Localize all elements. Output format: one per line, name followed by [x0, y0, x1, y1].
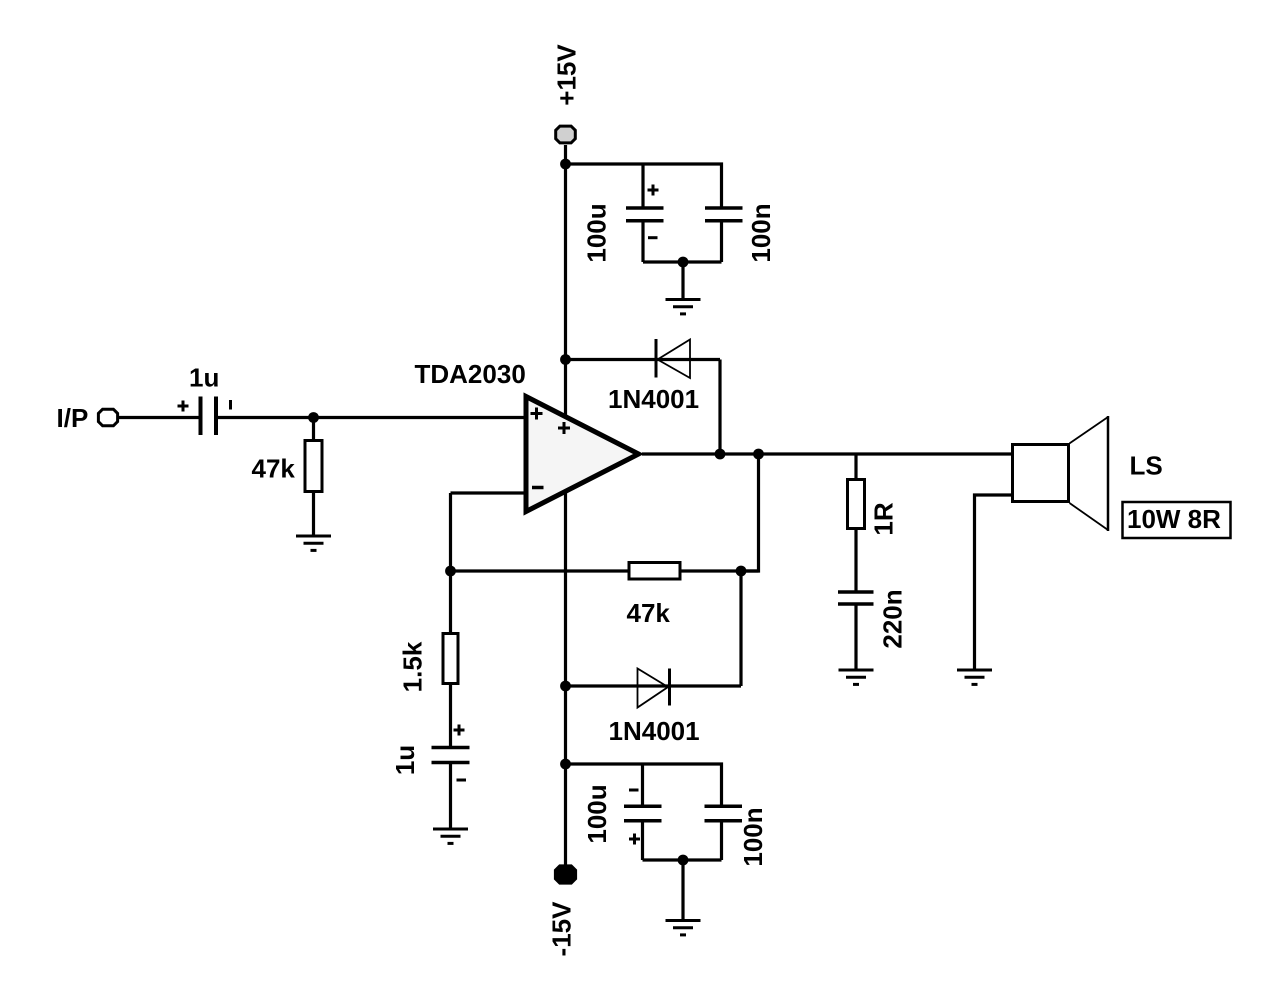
capacitor C5 100u bottom plate [624, 819, 662, 823]
ground below top decoupling [666, 300, 701, 314]
wire bottom 100u bottom stub [641, 820, 644, 860]
capacitor C1 1u plate left [199, 397, 203, 436]
junction dot feedback left (inverting node) [445, 566, 456, 577]
wire feedback node down to lower diode [739, 571, 742, 686]
svg-text:TDA2030: TDA2030 [415, 359, 526, 389]
svg-text:100n: 100n [738, 807, 768, 866]
wire 1R branch stub [854, 454, 857, 478]
rating box 10W 8R [1123, 502, 1231, 538]
svg-text:LS: LS [1130, 451, 1163, 481]
wire bottom 100u top stub [641, 764, 644, 806]
capacitor C1 1u plate right [214, 397, 218, 436]
capacitor C5 100u top plate [624, 805, 662, 809]
wire op-amp V- pin down to -15V terminal [564, 493, 567, 866]
svg-text:1.5k: 1.5k [398, 641, 428, 692]
C1 plus mark [178, 401, 189, 412]
junction dot bottom rail [560, 759, 571, 770]
capacitor C7 220n top plate [838, 590, 874, 594]
wire bottom 100n bottom stub [720, 820, 723, 860]
svg-text:100n: 100n [746, 203, 776, 262]
capacitor C2 1u top plate [432, 746, 470, 750]
diode D2 1N4001 cathode bar [668, 669, 671, 706]
speaker LS horn [1070, 417, 1109, 530]
diode D2 1N4001 triangle [638, 669, 669, 708]
resistor R1 47k body [305, 441, 322, 492]
wire output down to feedback rail [741, 454, 759, 571]
svg-text:47k: 47k [252, 454, 296, 484]
resistor R3 1.5k body [443, 634, 458, 684]
wire inverting input down to feedback node [449, 493, 452, 571]
wire top decoupling rail [566, 164, 722, 207]
wire node A down to R1 [312, 418, 315, 441]
svg-text:1N4001: 1N4001 [609, 716, 700, 746]
svg-text:100u: 100u [582, 203, 612, 262]
svg-text:220n: 220n [878, 589, 908, 648]
ground below speaker return [957, 670, 992, 684]
svg-text:1R: 1R [869, 502, 899, 535]
wire bottom decoupling bottom rail [643, 858, 722, 861]
speaker LS horn mouth [1107, 416, 1110, 531]
node A junction dot [308, 412, 319, 423]
op-amp V+ pin plus mark [558, 422, 570, 434]
svg-text:I/P: I/P [57, 403, 89, 433]
wire op-amp output to speaker [642, 452, 1011, 455]
C5 minus mark [629, 789, 639, 792]
wire feedback rail [451, 569, 759, 572]
wire 1.5k top lead [449, 571, 452, 633]
wire C1 to node A [217, 416, 524, 419]
wire speaker return [975, 495, 1012, 670]
speaker LS box [1013, 445, 1069, 502]
capacitor C4 100n top plate [705, 206, 743, 210]
diode D1 1N4001 triangle [658, 340, 691, 379]
wire C2 to ground [449, 763, 452, 829]
input terminal I/P octagon [98, 409, 117, 426]
diode D1 1N4001 cathode bar [655, 339, 658, 378]
ground below R1 [296, 536, 331, 550]
junction dot output/diode D1 [715, 449, 726, 460]
+15V terminal octagon [556, 126, 576, 143]
svg-text:100u: 100u [582, 784, 612, 843]
capacitor C2 1u bottom plate [432, 761, 470, 765]
wire +15V rail down to op-amp V+ pin [564, 164, 567, 416]
wire 100u bottom stub [641, 221, 644, 262]
ground below C2 [433, 829, 468, 843]
wire 1R to 220n [854, 530, 857, 591]
junction dot top decoupling ground [678, 257, 689, 268]
svg-text:+15V: +15V [552, 44, 582, 106]
-15V terminal filled octagon [555, 866, 575, 883]
resistor R4 1R body [848, 480, 865, 529]
C3 minus mark [648, 236, 658, 239]
capacitor C3 100u bottom plate [626, 219, 664, 223]
wire R1 to ground [312, 493, 315, 536]
op-amp minus input mark [532, 486, 544, 490]
wire bottom decoupling ground stem [681, 860, 684, 920]
C2 plus mark [454, 725, 465, 736]
wire 1.5k to C2 [449, 685, 452, 747]
svg-text:-15V: -15V [547, 901, 577, 957]
junction dot output/feedback [753, 449, 764, 460]
C2 minus mark [457, 779, 467, 782]
svg-text:1N4001: 1N4001 [608, 384, 699, 414]
junction dot feedback / diode D2 [736, 566, 747, 577]
C3 plus mark [648, 185, 659, 196]
wire lower diode branch [566, 684, 742, 687]
op-amp plus input mark [531, 408, 543, 420]
svg-text:47k: 47k [627, 598, 671, 628]
wire 100n bottom stub [720, 221, 723, 262]
resistor R2 47k feedback body [629, 563, 680, 580]
wire top diode branch [566, 358, 721, 361]
wire top decoupling bottom rail [643, 260, 722, 263]
ground below 220n [839, 670, 874, 684]
capacitor C7 220n bottom plate [838, 602, 874, 606]
wire top decoupling ground stem [681, 262, 684, 299]
junction dot top rail [560, 159, 571, 170]
ground below bottom decoupling [666, 921, 701, 935]
junction dot diode D1 branch [560, 354, 571, 365]
wire +15V terminal to top rail [564, 145, 567, 164]
junction dot bottom decoupling ground [678, 855, 689, 866]
wire inverting input horizontal [451, 491, 525, 494]
svg-text:1u: 1u [390, 745, 420, 775]
capacitor C4 100n bottom plate [705, 219, 743, 223]
wire bottom decoupling rail [566, 764, 722, 806]
C5 plus mark [629, 834, 640, 845]
junction dot diode D2 branch [560, 681, 571, 692]
svg-text:1u: 1u [189, 363, 219, 393]
wire top diode down to output [718, 360, 721, 455]
wire input terminal to C1 [118, 416, 199, 419]
C1 minus mark [229, 400, 232, 410]
op-amp U1 TDA2030 triangle [526, 397, 639, 512]
svg-text:10W 8R: 10W 8R [1127, 504, 1221, 534]
wire 220n to ground [854, 605, 857, 670]
wire 100u top stub [641, 164, 644, 207]
capacitor C6 100n top plate [705, 805, 743, 809]
capacitor C6 100n bottom plate [705, 819, 743, 823]
capacitor C3 100u top plate [626, 206, 664, 210]
